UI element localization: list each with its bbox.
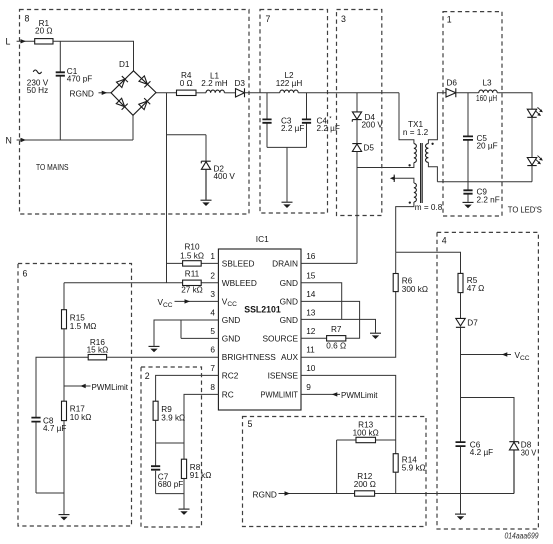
svg-text:100 kΩ: 100 kΩ: [353, 428, 379, 437]
wire box2 bottom: [156, 479, 184, 509]
LED 2: [527, 156, 543, 166]
resistor R9: [153, 401, 185, 422]
transformer core: [421, 143, 423, 203]
svg-text:16: 16: [306, 251, 316, 261]
wire pin 9 PWMLIMIT with arrow: [301, 390, 378, 400]
svg-text:TO MAINS: TO MAINS: [36, 162, 69, 172]
svg-text:400 V: 400 V: [214, 172, 236, 181]
svg-text:0.6 Ω: 0.6 Ω: [326, 341, 346, 350]
svg-text:20 µF: 20 µF: [477, 141, 498, 150]
svg-text:11: 11: [306, 345, 315, 355]
wire pin 12 SOURCE: [301, 337, 327, 339]
dashed block 3 (clamp): [337, 10, 382, 216]
dashed block 8 (mains input): [20, 10, 250, 215]
ground below D2: [201, 200, 212, 206]
svg-text:200 Ω: 200 Ω: [354, 480, 376, 489]
node RGND (sense): [253, 489, 355, 499]
diode D3: [235, 79, 246, 97]
svg-text:WBLEED: WBLEED: [222, 278, 257, 288]
bridge rectifier D1: [111, 60, 156, 115]
svg-text:L3: L3: [482, 79, 492, 88]
phasing dot primary: [408, 164, 410, 166]
wire D3 to L2: [245, 92, 280, 94]
wire L input: [17, 39, 35, 43]
svg-text:160 µH: 160 µH: [476, 94, 497, 103]
resistor R1: [35, 19, 53, 44]
AC source symbol: [27, 70, 49, 95]
wire N input: [17, 115, 133, 142]
resistor R11: [181, 270, 203, 295]
labels TX1: [403, 120, 443, 212]
wire C3 to C4 bottom: [267, 147, 307, 201]
svg-text:GND: GND: [222, 333, 240, 343]
svg-text:GND: GND: [280, 315, 298, 325]
wire pin 13: [301, 319, 376, 332]
resistor R10: [180, 242, 204, 266]
svg-text:3: 3: [341, 14, 346, 24]
svg-text:SSL2101: SSL2101: [244, 305, 281, 315]
wire D4 to D5: [356, 120, 358, 144]
svg-text:5.9 kΩ: 5.9 kΩ: [402, 463, 426, 472]
svg-text:GND: GND: [280, 278, 298, 288]
wire D7 down supply column: [460, 327, 462, 442]
svg-text:680 pF: 680 pF: [158, 480, 184, 489]
svg-text:L: L: [6, 37, 11, 47]
svg-text:7: 7: [210, 363, 215, 373]
svg-text:8: 8: [210, 382, 215, 392]
svg-text:9: 9: [306, 382, 311, 392]
dashed block 7 (EMI filter): [260, 10, 328, 214]
svg-text:8: 8: [25, 14, 30, 24]
dashed block 4 (VCC supply): [437, 232, 538, 529]
wire pin 6 BRIGHTNESS row: [36, 357, 218, 417]
svg-text:2.2 mH: 2.2 mH: [201, 79, 227, 88]
node VCC (supply): [461, 350, 530, 362]
capacitor C8: [31, 416, 66, 493]
wire R17 to ground row: [63, 421, 65, 493]
diode D7: [456, 318, 478, 327]
svg-text:R10: R10: [184, 242, 199, 251]
wire R5 to D7: [460, 293, 462, 319]
wire RGND row to D8: [375, 493, 514, 495]
svg-text:GND: GND: [280, 296, 298, 306]
diode D6: [446, 79, 457, 98]
wire pin 4 to ground: [154, 320, 218, 346]
wire pin 14: [301, 301, 360, 338]
svg-text:SBLEED: SBLEED: [222, 259, 255, 269]
op-amp/controller IC1 body: [218, 234, 301, 410]
resistor R14: [393, 454, 425, 494]
dashed block 2 (RC timing): [141, 367, 202, 527]
transformer TX1 secondary winding: [425, 144, 428, 163]
resistor R7: [326, 325, 346, 351]
resistor R16: [87, 338, 109, 360]
svg-text:PWMLimit: PWMLimit: [341, 390, 378, 400]
svg-text:10: 10: [306, 363, 316, 373]
transformer TX1 auxiliary winding: [414, 183, 416, 202]
wire pin 7 to R9: [156, 375, 219, 401]
svg-text:15 kΩ: 15 kΩ: [87, 345, 109, 354]
svg-text:6: 6: [23, 269, 28, 279]
wire bus down to primary: [399, 93, 414, 144]
svg-text:D7: D7: [467, 318, 478, 327]
pin numbers left 1-8: [210, 251, 215, 392]
inductor L2: [276, 71, 303, 93]
svg-text:n = 1.2: n = 1.2: [403, 128, 429, 137]
svg-text:27 kΩ: 27 kΩ: [181, 285, 203, 294]
wire pin 2 WBLEED row: [64, 282, 218, 284]
svg-text:0 Ω: 0 Ω: [180, 79, 193, 88]
branch wire to D2: [167, 135, 207, 161]
diode D8 (30 V): [509, 441, 536, 494]
svg-text:D5: D5: [364, 143, 375, 152]
diode D2 (400 V): [201, 161, 235, 200]
svg-text:R11: R11: [185, 270, 200, 279]
wire aux bottom to supply: [396, 202, 414, 252]
wire LED1 to LED2: [531, 117, 533, 157]
svg-text:TO LED'S: TO LED'S: [508, 204, 542, 214]
wire pin 1: [167, 262, 219, 264]
svg-text:122 µH: 122 µH: [276, 79, 303, 88]
svg-text:470 pF: 470 pF: [67, 74, 93, 83]
ground box 4: [455, 514, 466, 520]
svg-text:ISENSE: ISENSE: [268, 370, 299, 380]
bridge diode bottom-right: [138, 98, 150, 110]
diode D5: [352, 143, 374, 152]
svg-text:PWMLimit: PWMLimit: [92, 382, 129, 392]
svg-text:VCC: VCC: [515, 350, 530, 362]
svg-text:2.2 µF: 2.2 µF: [281, 124, 304, 133]
svg-text:3: 3: [210, 289, 215, 299]
bridge diode bottom-left: [116, 98, 128, 110]
resistor R6: [393, 252, 428, 293]
dashed block 5 (sense divider): [243, 417, 427, 527]
wire primary bottom to clamp: [357, 163, 414, 168]
ground box 2: [179, 509, 190, 515]
wire pin 10 ISENSE: [301, 375, 396, 453]
svg-text:BRIGHTNESS: BRIGHTNESS: [222, 352, 276, 362]
resistor R5: [458, 273, 484, 293]
wire rectified bus vertical: [166, 93, 168, 283]
svg-text:200 V: 200 V: [362, 120, 384, 129]
wire D8 branch: [461, 398, 515, 442]
transformer TX1 primary winding: [414, 144, 416, 163]
capacitor C6: [456, 441, 494, 514]
svg-text:4.7 µF: 4.7 µF: [43, 424, 66, 433]
wire pin 8 to R8: [184, 394, 218, 459]
svg-text:D6: D6: [447, 79, 458, 88]
wire secondary bottom: [428, 162, 437, 181]
phasing dot auxiliary: [409, 201, 411, 203]
svg-text:GND: GND: [222, 315, 240, 325]
svg-text:2: 2: [210, 270, 215, 280]
svg-text:7: 7: [266, 14, 271, 24]
svg-text:N: N: [6, 136, 12, 146]
svg-text:1: 1: [210, 251, 215, 261]
svg-text:12: 12: [306, 326, 316, 336]
svg-text:10 kΩ: 10 kΩ: [70, 413, 92, 422]
wire bus to D4: [356, 93, 358, 112]
wire D6 to L3: [456, 92, 479, 94]
svg-text:2: 2: [145, 371, 150, 381]
wire L2 to transformer: [298, 92, 399, 94]
phasing dot secondary: [431, 143, 433, 145]
resistor R13: [353, 421, 379, 443]
svg-text:47 Ω: 47 Ω: [467, 284, 485, 293]
bridge diode top-right: [139, 76, 151, 88]
wire aux top with tap arrow: [390, 175, 414, 183]
diode D4 (200 V): [352, 112, 383, 129]
capacitor C9: [463, 182, 499, 205]
ground below filter: [282, 202, 293, 208]
wire pin 11 AUX to R6: [301, 292, 396, 358]
wire R13 left leg: [337, 440, 356, 494]
svg-text:VCC: VCC: [158, 297, 173, 309]
wire pin 16 DRAIN: [301, 262, 357, 264]
node RGND (mains): [70, 88, 112, 98]
svg-text:91 kΩ: 91 kΩ: [190, 471, 212, 480]
svg-text:D1: D1: [119, 60, 130, 69]
capacitor C7: [151, 443, 183, 494]
svg-text:AUX: AUX: [281, 352, 299, 362]
wire L3 to LED string: [497, 93, 532, 109]
svg-text:m = 0.8: m = 0.8: [415, 203, 443, 212]
wire R15 to R17: [63, 329, 65, 401]
LED 1: [527, 107, 543, 117]
wire R1 to bridge top: [53, 41, 134, 71]
resistor R17: [62, 401, 92, 422]
resistor R4: [177, 71, 197, 95]
wire bridge to R4: [156, 92, 177, 94]
svg-text:300 kΩ: 300 kΩ: [402, 285, 428, 294]
pin numbers right 16-9: [306, 251, 316, 392]
node VCC to pin 3: [158, 297, 219, 309]
wire pin 15: [301, 283, 342, 320]
wire R4 to L1: [196, 92, 206, 94]
capacitor C1: [56, 41, 93, 140]
ground below C9: [463, 202, 474, 208]
node PWMLimit arrow: [64, 382, 129, 392]
wire L1 to D3: [224, 92, 235, 94]
wire pin 5: [181, 320, 218, 338]
resistor R12: [354, 472, 376, 496]
svg-text:15: 15: [306, 270, 316, 280]
svg-text:4: 4: [442, 236, 447, 246]
svg-text:5: 5: [248, 419, 253, 429]
ground pin 13: [370, 333, 381, 339]
svg-text:20 Ω: 20 Ω: [35, 27, 53, 36]
svg-text:R7: R7: [331, 325, 342, 334]
svg-text:RC2: RC2: [222, 370, 239, 380]
svg-text:4.2 µF: 4.2 µF: [470, 448, 493, 457]
svg-text:1: 1: [447, 14, 452, 24]
svg-text:IC1: IC1: [256, 234, 269, 244]
svg-text:1.5 MΩ: 1.5 MΩ: [70, 322, 97, 331]
wire secondary top to D6: [428, 93, 446, 144]
svg-text:RGND: RGND: [253, 489, 277, 499]
svg-text:30 V: 30 V: [521, 448, 537, 457]
wire WBLEED drop to R15: [63, 283, 65, 310]
capacitor C4: [302, 93, 340, 148]
svg-text:6: 6: [210, 345, 215, 355]
wire box6 bottom: [36, 493, 64, 514]
svg-text:DRAIN: DRAIN: [272, 259, 298, 269]
svg-text:4: 4: [210, 308, 215, 318]
svg-text:RGND: RGND: [70, 88, 94, 98]
svg-text:5: 5: [210, 326, 215, 336]
bridge diode top-left: [116, 76, 128, 88]
ground pin 4: [149, 346, 160, 352]
svg-text:13: 13: [306, 308, 316, 318]
svg-text:14: 14: [306, 289, 316, 299]
dashed block 6 (brightness divider): [18, 264, 132, 527]
svg-text:RC: RC: [222, 389, 234, 399]
wire LED return: [437, 166, 532, 182]
capacitor C3: [262, 93, 304, 148]
inductor L3: [476, 79, 497, 104]
wire R9 to C7 and R8 column: [156, 420, 184, 443]
svg-text:3.9 kΩ: 3.9 kΩ: [161, 413, 185, 422]
ground box 6: [59, 515, 70, 521]
resistor R15: [62, 310, 97, 331]
resistor R8: [181, 459, 211, 480]
svg-text:SOURCE: SOURCE: [263, 333, 299, 343]
inductor L1: [201, 72, 227, 93]
dashed block 1 (output filter): [443, 12, 502, 216]
svg-text:014aaa699: 014aaa699: [505, 532, 539, 541]
svg-text:50 Hz: 50 Hz: [27, 86, 48, 95]
svg-text:PWMLIMIT: PWMLIMIT: [261, 389, 299, 399]
wire D5 to drain bus: [356, 152, 358, 264]
wire supply top row: [396, 252, 461, 273]
capacitor C5: [463, 93, 498, 182]
svg-text:2.2 nF: 2.2 nF: [477, 195, 500, 204]
svg-text:1.5 kΩ: 1.5 kΩ: [180, 251, 204, 260]
wire R13 to ISENSE column: [376, 439, 396, 441]
svg-text:D3: D3: [235, 79, 246, 88]
